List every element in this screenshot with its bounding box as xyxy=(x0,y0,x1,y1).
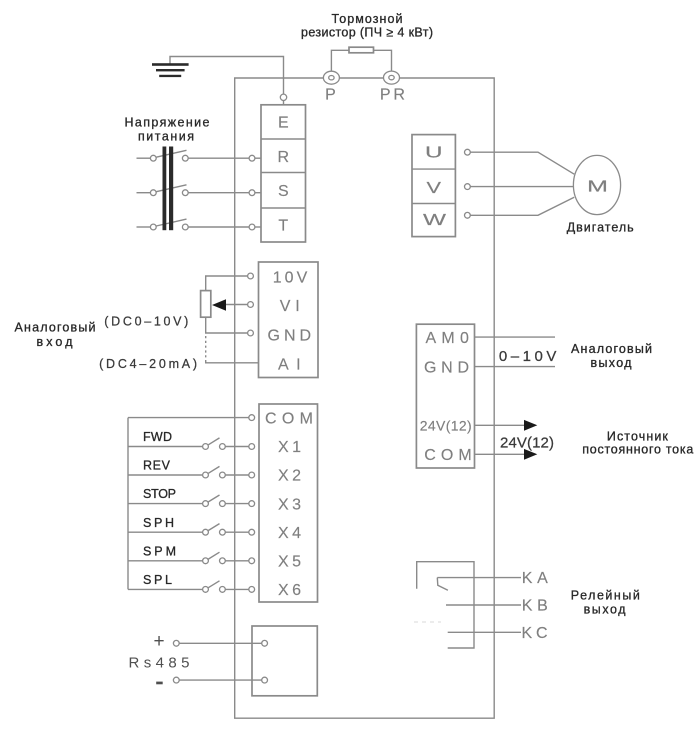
Rs485 block xyxy=(252,626,317,696)
wire COM xyxy=(128,417,249,419)
terminal W xyxy=(465,212,471,218)
svg-text:W: W xyxy=(423,212,447,229)
phase S input xyxy=(137,185,262,196)
wire wiper to VI xyxy=(226,304,248,306)
svg-text:VI: VI xyxy=(280,298,300,315)
terminal VI xyxy=(248,302,254,308)
wire W to motor xyxy=(470,197,574,215)
svg-text:P: P xyxy=(325,87,336,104)
svg-text:24V(12): 24V(12) xyxy=(500,435,554,452)
svg-text:Напряжение: Напряжение xyxy=(125,116,210,130)
phase R input xyxy=(137,150,262,161)
switch STOP / X3 xyxy=(128,487,255,506)
terminal PR xyxy=(380,71,405,103)
relay dashes xyxy=(414,621,441,623)
svg-text:COM: COM xyxy=(265,410,313,427)
breaker bars xyxy=(163,147,174,231)
wire dotted to AI xyxy=(205,336,207,361)
svg-text:SPH: SPH xyxy=(143,516,174,530)
terminal COM xyxy=(249,415,255,421)
terminal block U V W xyxy=(412,135,455,237)
wire P to resistor xyxy=(331,50,349,71)
svg-text:+: + xyxy=(153,631,164,652)
svg-text:10V: 10V xyxy=(273,270,308,287)
svg-text:PR: PR xyxy=(380,87,405,104)
digital input bus xyxy=(127,418,129,590)
pot wiper arrow xyxy=(212,299,226,310)
svg-text:питания: питания xyxy=(138,130,194,144)
svg-text:Аналоговый: Аналоговый xyxy=(571,342,652,356)
terminal Rs485 minus xyxy=(156,677,267,684)
arrow 24V xyxy=(524,420,537,431)
svg-text:(DC0–10V): (DC0–10V) xyxy=(104,315,188,329)
relay blade xyxy=(437,578,448,591)
terminal Rs485 plus xyxy=(153,631,267,652)
relay frame xyxy=(417,562,474,648)
inverter body outline xyxy=(235,78,495,718)
ground wire xyxy=(170,57,284,95)
svg-text:U: U xyxy=(425,145,443,162)
svg-text:Rs485: Rs485 xyxy=(129,655,190,672)
svg-text:Релейный: Релейный xyxy=(571,589,640,603)
terminal GND xyxy=(248,330,254,336)
terminal U xyxy=(465,149,471,155)
svg-text:AM0: AM0 xyxy=(425,330,469,347)
svg-text:FWD: FWD xyxy=(143,430,172,444)
svg-text:вход: вход xyxy=(37,335,74,349)
svg-text:T: T xyxy=(278,218,288,235)
wire KB xyxy=(446,604,521,606)
wire 24V out xyxy=(475,424,526,426)
svg-text:постоянного тока: постоянного тока xyxy=(582,443,693,457)
ground xyxy=(152,63,189,77)
wire GND out xyxy=(475,366,556,368)
svg-text:GND: GND xyxy=(424,360,469,377)
switch REV / X2 xyxy=(128,459,255,478)
wire pot top to 10V xyxy=(206,276,248,291)
phase T input xyxy=(137,219,262,230)
wire resistor to PR xyxy=(374,50,392,71)
wire AI xyxy=(206,361,259,363)
svg-text:GND: GND xyxy=(268,328,312,345)
switch SPM / X5 xyxy=(128,544,255,563)
terminal 10V xyxy=(248,273,254,279)
switch SPL / X6 xyxy=(128,573,255,592)
wire COM out xyxy=(475,453,526,455)
svg-text:R: R xyxy=(278,149,290,166)
svg-text:V: V xyxy=(427,180,442,197)
terminal block 10V VI GND AI xyxy=(259,262,319,378)
svg-text:Аналоговый: Аналоговый xyxy=(15,321,96,335)
terminal block E R S T xyxy=(261,105,306,242)
wire V to motor xyxy=(470,186,573,188)
svg-text:выход: выход xyxy=(591,356,633,370)
arrow COM xyxy=(524,449,537,460)
resistor braking xyxy=(349,47,374,53)
svg-text:E: E xyxy=(278,115,289,132)
svg-text:SPM: SPM xyxy=(143,544,176,558)
svg-text:выход: выход xyxy=(584,602,627,616)
terminal V xyxy=(465,184,471,190)
svg-text:STOP: STOP xyxy=(143,487,176,501)
svg-text:M: M xyxy=(587,178,608,195)
svg-text:COM: COM xyxy=(424,447,472,464)
switch FWD / X1 xyxy=(128,430,255,449)
terminal P xyxy=(323,71,339,103)
wire AM0 out xyxy=(475,336,556,338)
svg-text:Тормозной: Тормозной xyxy=(332,12,403,26)
svg-text:S: S xyxy=(278,183,289,200)
terminal block AM0 GND 24V COM xyxy=(416,324,474,468)
svg-text:Источник: Источник xyxy=(607,429,669,443)
potentiometer xyxy=(201,291,211,318)
svg-text:REV: REV xyxy=(143,459,171,473)
svg-text:SPL: SPL xyxy=(143,573,172,587)
svg-text:Двигатель: Двигатель xyxy=(567,220,634,234)
wire U to motor xyxy=(470,152,574,174)
terminal block COM X1-X6 xyxy=(259,404,318,602)
switch SPH / X4 xyxy=(128,516,255,535)
wire KC xyxy=(448,631,521,633)
svg-text:24V(12): 24V(12) xyxy=(420,417,472,433)
node E terminal xyxy=(280,94,286,100)
svg-text:резистор (ПЧ ≥ 4 кВт): резистор (ПЧ ≥ 4 кВт) xyxy=(301,26,433,40)
wire pot bottom to GND xyxy=(206,317,248,333)
motor M xyxy=(573,155,620,214)
wire E stub xyxy=(283,100,285,105)
wire KA xyxy=(437,577,521,579)
